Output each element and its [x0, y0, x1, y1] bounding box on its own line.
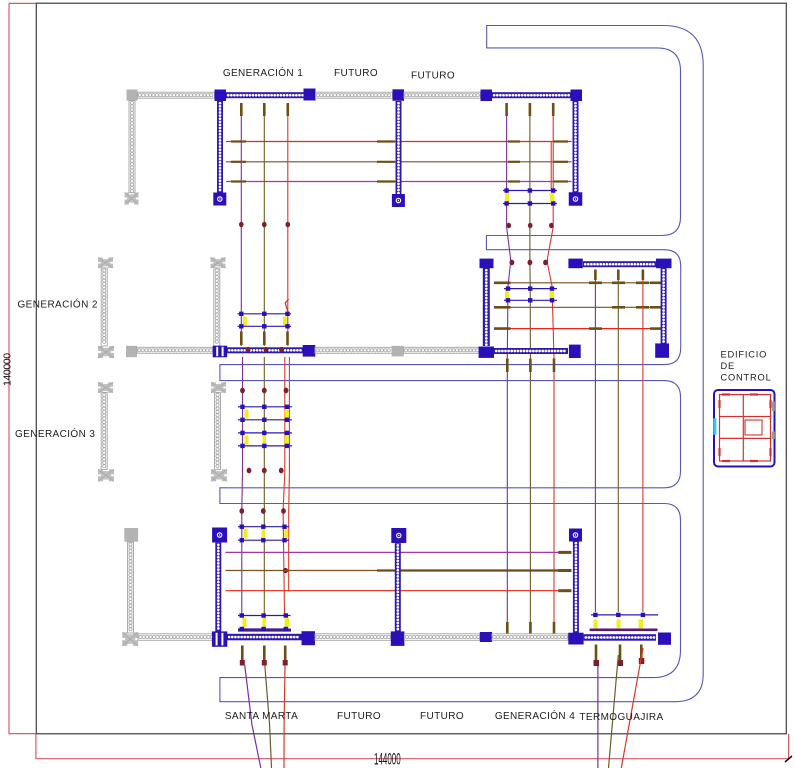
gen2 column gray 2 [214, 268, 220, 346]
svg-text:SANTA MARTA: SANTA MARTA [225, 711, 298, 722]
exit wire purple (santa marta) [245, 665, 261, 768]
mid-bay bottom beam [494, 348, 568, 354]
top row gray beam 3 [404, 92, 481, 98]
bottom beam gray 3 [404, 634, 479, 641]
svg-text:GENERACIÓN 1: GENERACIÓN 1 [223, 66, 303, 79]
termoguajira link row [591, 613, 658, 629]
gen3 col2 top cap [211, 382, 226, 393]
mid-bay top-left post [568, 259, 582, 269]
gen2 gray square [126, 346, 137, 357]
nodes bay2 lower [510, 260, 548, 266]
mid-bay interior line brown 1 [494, 282, 666, 284]
tower footing navy 1 [213, 193, 226, 206]
gen3 column gray 1 [101, 393, 107, 470]
switch cluster B (double, y406-446) [238, 405, 292, 449]
gen3 col1 bottom cap [98, 469, 114, 481]
gen3 col2 bottom cap [211, 469, 227, 481]
bottom beam navy 1 [227, 634, 302, 641]
svg-text:144000: 144000 [374, 749, 401, 768]
bottom beam post 2 [391, 631, 405, 646]
santa marta below-beam stubs [242, 646, 285, 661]
top row post C [481, 90, 493, 102]
feeder wires GENERACION 1 [241, 103, 287, 346]
svg-text:140000: 140000 [2, 353, 14, 386]
top row navy beam bay2 [492, 92, 571, 98]
svg-text:TERMOGUAJIRA: TERMOGUAJIRA [579, 712, 663, 723]
mid-bay line end stubs 2 [494, 306, 666, 309]
cluster A lower stubs [241, 332, 287, 346]
bus jumper stubs row 1 [231, 140, 568, 142]
exit wire brown (santa marta) [265, 665, 272, 768]
mid-bay stubs below bottom beam [507, 359, 554, 373]
termoguajira stub caps [594, 658, 645, 666]
nodes below GEN2 [240, 388, 288, 394]
bottom column navy 2 [395, 543, 401, 632]
disconnect nodes GEN1 row [239, 222, 290, 228]
mid-bay interior line brown 2 [494, 306, 666, 308]
nodes bay2 upper [507, 223, 554, 228]
top row post B [393, 89, 405, 101]
dimension tick right [785, 756, 792, 762]
tower footing navy 3 [569, 192, 583, 206]
feeder top stubs GEN1 [241, 103, 287, 116]
mid-bay bottom-left post [479, 347, 494, 358]
tower column gray (top row) [129, 101, 135, 193]
tower footing gray [125, 193, 139, 205]
gen4 feeder stubs at bottom beam [507, 622, 554, 634]
mid-bay bottom-right post [655, 343, 669, 357]
svg-text:GENERACIÓN 4: GENERACIÓN 4 [495, 709, 575, 722]
bus line red (top) [226, 141, 572, 143]
dimension line left (140000) [9, 3, 36, 733]
bus jumper stubs row 3 [231, 180, 568, 182]
tower column navy 2 [396, 101, 402, 195]
top row big navy square [304, 89, 316, 101]
svg-text:GENERACIÓN 2: GENERACIÓN 2 [18, 298, 98, 311]
nodes on GEN2 beam [246, 347, 285, 352]
svg-text:DE: DE [721, 361, 736, 371]
gen2 navy double post [213, 346, 228, 358]
termoguajira feeder wires [595, 270, 643, 613]
termoguajira below-beam stubs [596, 645, 641, 661]
bus line purple (bottom) [226, 551, 572, 553]
gen2 gray beam 1 [137, 347, 213, 353]
bottom beam gray 4 [492, 634, 568, 641]
red bus drop at x551 [550, 142, 552, 191]
switch cluster D (SANTA MARTA) [238, 613, 291, 631]
tower column navy 1 [217, 101, 223, 193]
mid-bay bottom navy square [569, 345, 581, 358]
bottom beam post 4 [568, 633, 583, 645]
bottom post 1 [212, 528, 227, 543]
bottom beam gray square [122, 632, 138, 646]
svg-text:CONTROL: CONTROL [721, 373, 772, 383]
mid-bay corner post nw [480, 259, 494, 269]
bus line magenta (top) [226, 181, 572, 183]
gen2 gray beam 3 [404, 347, 479, 353]
feeder top stubs bay2 [507, 103, 554, 116]
bottom beam post 3 [480, 632, 492, 642]
termoguajira thick bar [590, 628, 658, 631]
svg-text:EDIFICIO: EDIFICIO [721, 350, 768, 360]
exit wire brown (termo) [609, 655, 619, 768]
bottom gray square top [124, 528, 138, 542]
exit wire red (santa marta) [284, 665, 285, 768]
label EDIFICIO DE CONTROL [721, 350, 772, 383]
gen2 col1 bottom cap [98, 346, 114, 358]
bus jumper stubs row 2 [231, 161, 568, 163]
bottom beam navy 2 (termoguajira) [584, 634, 656, 641]
svg-text:FUTURO: FUTURO [334, 68, 378, 79]
switch cluster mid-bay (y286-302) [504, 286, 557, 302]
bottom column gray [128, 542, 134, 633]
mid-bay line end stubs 3 [494, 327, 666, 330]
bus thick brown overlay [377, 569, 571, 571]
santa marta stub caps [240, 660, 288, 666]
bottom bus end stub 1 [558, 551, 571, 554]
bus line red (bottom) [226, 590, 572, 592]
edificio de control building [713, 390, 775, 467]
exit wire purple (termo) [597, 666, 599, 768]
gen2 column gray 1 [101, 268, 107, 346]
gen2 col1 top cap [98, 258, 113, 269]
gen2 col2 top cap [211, 258, 226, 269]
bottom post 3 [569, 529, 582, 542]
top row gray beam 2 [316, 92, 393, 98]
corridor wires GEN3 [242, 357, 290, 614]
thick purple bar SANTA MARTA [238, 629, 291, 632]
mid-bay interior line red [494, 328, 666, 330]
mid-bay top-right post [656, 259, 672, 269]
node on brown bus [283, 568, 288, 573]
mid-bay line end stubs 1 [494, 281, 666, 284]
bottom bus end stub 3 [558, 589, 571, 592]
top row navy beam GEN1 [226, 92, 304, 98]
bus line brown (top) [226, 161, 572, 163]
top row gray beam 1 [138, 92, 215, 98]
svg-text:FUTURO: FUTURO [411, 71, 455, 82]
termoguajira feeder top stubs [595, 270, 643, 281]
tower column navy 3 [573, 101, 579, 193]
tower footing navy 2 [392, 194, 405, 207]
switch cluster bay2 (y190-204) [503, 188, 557, 205]
gen2 gray square 2 [392, 346, 404, 357]
top row post A [215, 90, 227, 102]
road / cable-trench loop [220, 26, 703, 702]
mid-bay top beam [583, 261, 656, 267]
switch cluster C (y527-540) [238, 525, 289, 543]
gen3 column gray 2 [215, 393, 221, 470]
mid-bay left column [483, 268, 490, 346]
bottom beam post 1 [212, 631, 227, 646]
bottom post 2 [391, 528, 406, 543]
switch cluster A (above GEN2 row) [238, 312, 292, 329]
nodes y511 [239, 508, 285, 514]
bottom column navy 1 [215, 543, 221, 633]
gen2 navy beam [227, 347, 303, 353]
feeder wires bay 2 [507, 103, 554, 622]
svg-text:FUTURO: FUTURO [337, 711, 381, 722]
bottom bus end stub 2 [558, 569, 571, 572]
bus line brown (bottom) [226, 570, 572, 572]
bottom column navy 3 [573, 541, 579, 633]
bottom beam navy square 2 [658, 633, 671, 645]
gen2 gray beam 2 [315, 347, 392, 353]
bottom beam gray 1 [138, 634, 213, 641]
svg-text:GENERACIÓN 3: GENERACIÓN 3 [15, 427, 95, 440]
top row post D [571, 90, 583, 102]
cluster A red hook [285, 299, 288, 312]
mid-bay right column [661, 268, 667, 344]
svg-text:FUTURO: FUTURO [420, 711, 464, 722]
bottom beam navy square [302, 631, 316, 645]
gen3 col1 top cap [98, 382, 113, 393]
exit wire red (termo) [621, 648, 643, 768]
gen2 navy big square [303, 345, 316, 357]
mid-bay crossing stubs [589, 283, 649, 329]
top row gray end square [127, 90, 138, 101]
dimension line bottom (144000) [36, 734, 789, 759]
bottom beam gray 2 [315, 634, 391, 641]
nodes y468 [247, 468, 284, 474]
